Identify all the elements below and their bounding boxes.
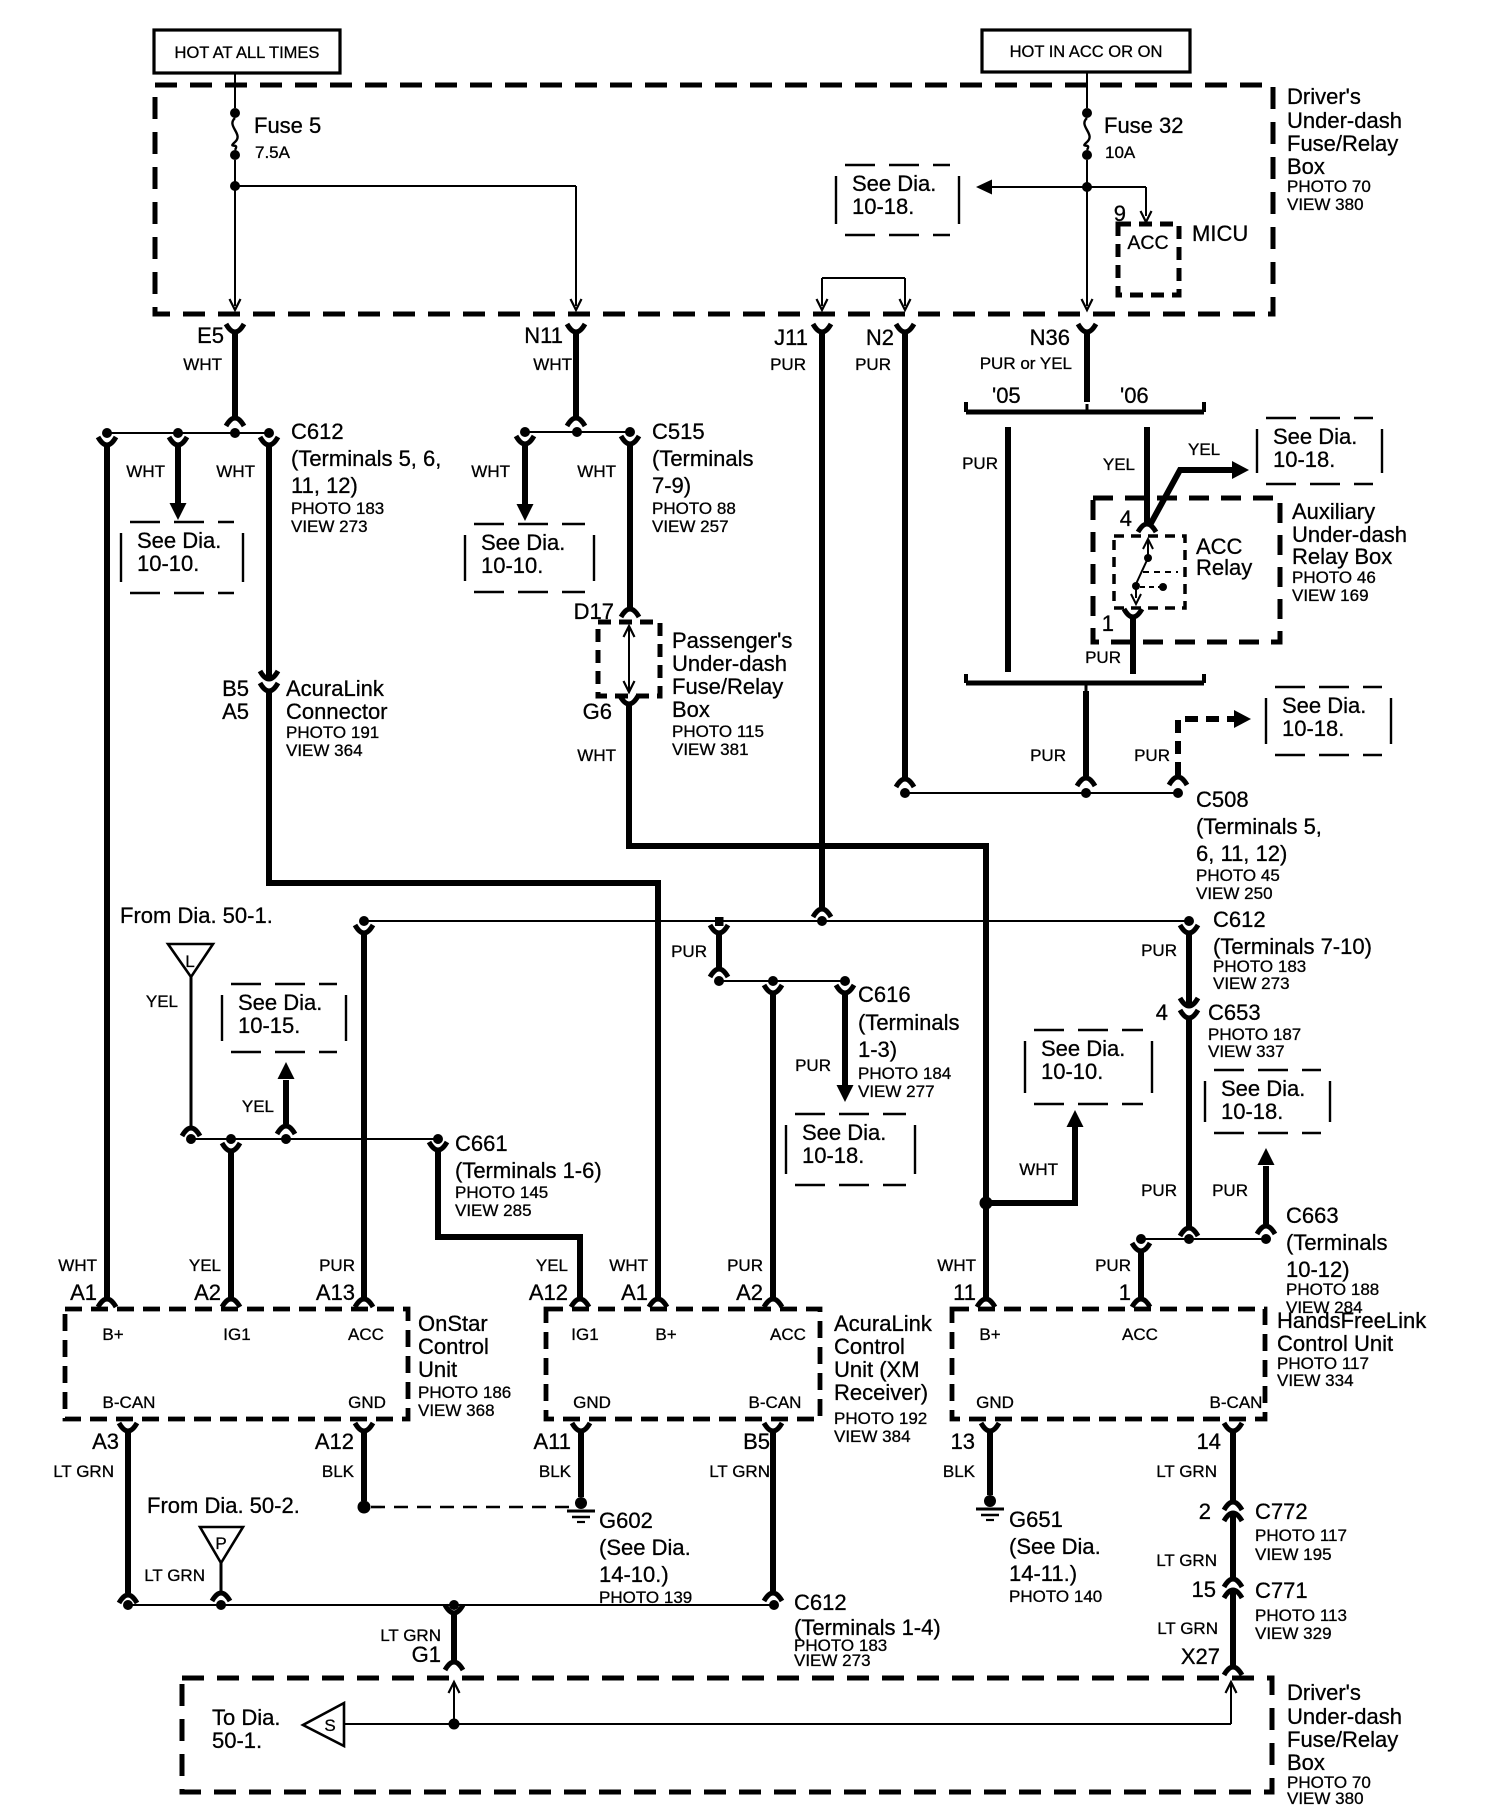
svg-text:PUR: PUR — [671, 942, 707, 961]
svg-text:10-18.: 10-18. — [1282, 716, 1344, 741]
svg-text:50-1.: 50-1. — [212, 1728, 262, 1753]
svg-text:PUR: PUR — [962, 454, 998, 473]
svg-text:10-18.: 10-18. — [1221, 1099, 1283, 1124]
svg-text:To Dia.: To Dia. — [212, 1705, 280, 1730]
svg-text:WHT: WHT — [58, 1256, 97, 1275]
svg-text:PHOTO 184: PHOTO 184 — [858, 1064, 951, 1083]
svg-text:LT GRN: LT GRN — [1156, 1462, 1217, 1481]
svg-text:PHOTO 188: PHOTO 188 — [1286, 1280, 1379, 1299]
svg-text:A12: A12 — [315, 1429, 354, 1454]
svg-text:(Terminals: (Terminals — [1286, 1230, 1387, 1255]
svg-text:VIEW 384: VIEW 384 — [834, 1427, 911, 1446]
svg-text:PUR: PUR — [855, 355, 891, 374]
svg-text:B+: B+ — [102, 1325, 123, 1344]
svg-text:PHOTO 113: PHOTO 113 — [1255, 1606, 1347, 1625]
svg-text:Passenger's: Passenger's — [672, 628, 792, 653]
svg-text:Fuse 32: Fuse 32 — [1104, 113, 1184, 138]
svg-text:PUR: PUR — [770, 355, 806, 374]
svg-text:WHT: WHT — [577, 746, 616, 765]
svg-text:PUR: PUR — [795, 1056, 831, 1075]
svg-text:A11: A11 — [533, 1429, 571, 1454]
svg-text:13: 13 — [951, 1429, 975, 1454]
svg-text:VIEW 364: VIEW 364 — [286, 741, 363, 760]
svg-text:LT GRN: LT GRN — [144, 1566, 205, 1585]
svg-text:VIEW 169: VIEW 169 — [1292, 586, 1369, 605]
svg-text:PUR: PUR — [727, 1256, 763, 1275]
svg-text:VIEW 273: VIEW 273 — [794, 1651, 871, 1670]
svg-text:C772: C772 — [1255, 1499, 1308, 1524]
svg-text:VIEW 273: VIEW 273 — [291, 517, 368, 536]
svg-text:7.5A: 7.5A — [255, 143, 291, 162]
svg-text:14-10.): 14-10.) — [599, 1562, 669, 1587]
svg-text:A5: A5 — [222, 699, 249, 724]
svg-text:C663: C663 — [1286, 1203, 1339, 1228]
svg-text:(See Dia.: (See Dia. — [1009, 1534, 1101, 1559]
svg-text:L: L — [185, 952, 194, 971]
svg-text:WHT: WHT — [183, 355, 222, 374]
svg-text:B-CAN: B-CAN — [103, 1393, 156, 1412]
svg-text:2: 2 — [1199, 1499, 1211, 1524]
svg-text:WHT: WHT — [577, 462, 616, 481]
svg-text:PUR: PUR — [1141, 1181, 1177, 1200]
svg-text:PHOTO 183: PHOTO 183 — [291, 499, 384, 518]
svg-text:A12: A12 — [529, 1280, 568, 1305]
svg-text:From Dia. 50-1.: From Dia. 50-1. — [120, 903, 273, 928]
svg-text:VIEW 273: VIEW 273 — [1213, 974, 1290, 993]
svg-text:See Dia.: See Dia. — [1273, 424, 1357, 449]
svg-text:A3: A3 — [92, 1429, 119, 1454]
svg-text:10-18.: 10-18. — [1273, 447, 1335, 472]
svg-text:B-CAN: B-CAN — [1210, 1393, 1263, 1412]
svg-text:GND: GND — [976, 1393, 1014, 1412]
svg-text:Fuse/Relay: Fuse/Relay — [1287, 1727, 1398, 1752]
svg-text:A1: A1 — [621, 1280, 648, 1305]
svg-text:WHT: WHT — [216, 462, 255, 481]
svg-text:Control Unit: Control Unit — [1277, 1331, 1393, 1356]
svg-text:PUR: PUR — [319, 1256, 355, 1275]
svg-text:PHOTO 70: PHOTO 70 — [1287, 177, 1371, 196]
svg-text:PHOTO 192: PHOTO 192 — [834, 1409, 927, 1428]
svg-text:11, 12): 11, 12) — [291, 473, 358, 498]
svg-text:Auxiliary: Auxiliary — [1292, 499, 1375, 524]
svg-text:LT GRN: LT GRN — [53, 1462, 114, 1481]
svg-text:HandsFreeLink: HandsFreeLink — [1277, 1308, 1427, 1333]
svg-text:BLK: BLK — [322, 1462, 355, 1481]
svg-text:10-10.: 10-10. — [1041, 1059, 1103, 1084]
svg-text:VIEW 285: VIEW 285 — [455, 1201, 532, 1220]
svg-text:WHT: WHT — [1019, 1160, 1058, 1179]
svg-text:C612: C612 — [1213, 907, 1266, 932]
svg-text:Fuse 5: Fuse 5 — [254, 113, 321, 138]
svg-text:G1: G1 — [412, 1642, 441, 1667]
svg-text:See Dia.: See Dia. — [852, 171, 936, 196]
svg-text:See Dia.: See Dia. — [481, 530, 565, 555]
svg-text:OnStar: OnStar — [418, 1311, 488, 1336]
svg-text:Box: Box — [672, 697, 710, 722]
svg-text:Receiver): Receiver) — [834, 1380, 928, 1405]
svg-text:HOT AT ALL TIMES: HOT AT ALL TIMES — [175, 44, 320, 62]
svg-text:(Terminals 7-10): (Terminals 7-10) — [1213, 934, 1372, 959]
svg-text:N11: N11 — [524, 323, 563, 348]
svg-text:WHT: WHT — [533, 355, 572, 374]
svg-text:G6: G6 — [583, 699, 612, 724]
svg-text:See Dia.: See Dia. — [1282, 693, 1366, 718]
svg-text:Driver's: Driver's — [1287, 84, 1361, 109]
svg-text:VIEW 277: VIEW 277 — [858, 1082, 935, 1101]
svg-text:Driver's: Driver's — [1287, 1680, 1361, 1705]
svg-text:GND: GND — [573, 1393, 611, 1412]
svg-text:B5: B5 — [743, 1429, 770, 1454]
svg-text:PUR or YEL: PUR or YEL — [980, 354, 1072, 373]
svg-text:Relay: Relay — [1196, 555, 1252, 580]
svg-text:A13: A13 — [316, 1280, 355, 1305]
svg-text:From Dia. 50-2.: From Dia. 50-2. — [147, 1493, 300, 1518]
svg-text:(Terminals: (Terminals — [652, 446, 753, 471]
svg-text:LT GRN: LT GRN — [1157, 1619, 1218, 1638]
svg-text:PHOTO 45: PHOTO 45 — [1196, 866, 1280, 885]
svg-text:P: P — [215, 1534, 226, 1553]
svg-text:YEL: YEL — [242, 1097, 274, 1116]
svg-text:AcuraLink: AcuraLink — [834, 1311, 933, 1336]
svg-text:Box: Box — [1287, 1750, 1325, 1775]
svg-text:N2: N2 — [866, 325, 894, 350]
svg-text:VIEW 380: VIEW 380 — [1287, 1789, 1364, 1808]
svg-text:'05: '05 — [992, 383, 1021, 408]
svg-text:VIEW 380: VIEW 380 — [1287, 195, 1364, 214]
svg-text:Under-dash: Under-dash — [672, 651, 787, 676]
svg-text:PHOTO 140: PHOTO 140 — [1009, 1587, 1102, 1606]
svg-text:Under-dash: Under-dash — [1287, 1704, 1402, 1729]
svg-text:BLK: BLK — [943, 1462, 976, 1481]
svg-text:C616: C616 — [858, 982, 911, 1007]
svg-text:WHT: WHT — [609, 1256, 648, 1275]
svg-text:Unit: Unit — [418, 1357, 457, 1382]
svg-text:G651: G651 — [1009, 1507, 1063, 1532]
svg-text:Connector: Connector — [286, 699, 388, 724]
svg-text:IG1: IG1 — [223, 1325, 250, 1344]
svg-text:ACC: ACC — [348, 1325, 384, 1344]
svg-text:Relay Box: Relay Box — [1292, 544, 1392, 569]
svg-text:B5: B5 — [222, 676, 249, 701]
svg-text:ACC: ACC — [1127, 232, 1168, 254]
svg-text:B+: B+ — [655, 1325, 676, 1344]
svg-text:G602: G602 — [599, 1508, 653, 1533]
svg-text:1: 1 — [1119, 1280, 1131, 1305]
svg-text:BLK: BLK — [539, 1462, 572, 1481]
svg-text:VIEW 337: VIEW 337 — [1208, 1042, 1285, 1061]
svg-text:(See Dia.: (See Dia. — [599, 1535, 691, 1560]
svg-text:See Dia.: See Dia. — [802, 1120, 886, 1145]
svg-text:4: 4 — [1156, 1000, 1168, 1025]
svg-text:VIEW 368: VIEW 368 — [418, 1401, 495, 1420]
svg-text:GND: GND — [348, 1393, 386, 1412]
svg-text:PHOTO 117: PHOTO 117 — [1255, 1526, 1347, 1545]
svg-text:10-15.: 10-15. — [238, 1013, 300, 1038]
svg-text:VIEW 195: VIEW 195 — [1255, 1545, 1332, 1564]
svg-text:MICU: MICU — [1192, 221, 1248, 246]
svg-text:PUR: PUR — [1134, 746, 1170, 765]
svg-text:PHOTO 46: PHOTO 46 — [1292, 568, 1376, 587]
svg-text:11: 11 — [953, 1280, 976, 1305]
svg-text:6, 11, 12): 6, 11, 12) — [1196, 841, 1287, 866]
svg-text:X27: X27 — [1181, 1644, 1220, 1669]
svg-text:N36: N36 — [1030, 325, 1070, 350]
svg-text:PHOTO 115: PHOTO 115 — [672, 722, 764, 741]
svg-text:VIEW 250: VIEW 250 — [1196, 884, 1273, 903]
svg-text:PUR: PUR — [1212, 1181, 1248, 1200]
svg-text:See Dia.: See Dia. — [1221, 1076, 1305, 1101]
svg-text:10A: 10A — [1105, 143, 1136, 162]
svg-text:1: 1 — [1102, 611, 1114, 636]
svg-text:YEL: YEL — [1103, 455, 1135, 474]
svg-text:PUR: PUR — [1141, 941, 1177, 960]
svg-text:E5: E5 — [197, 323, 224, 348]
svg-text:10-10.: 10-10. — [137, 551, 199, 576]
svg-text:15: 15 — [1192, 1577, 1216, 1602]
svg-text:PUR: PUR — [1095, 1256, 1131, 1275]
svg-text:ACC: ACC — [1122, 1325, 1158, 1344]
svg-text:VIEW 257: VIEW 257 — [652, 517, 729, 536]
svg-text:A1: A1 — [70, 1280, 97, 1305]
svg-text:Fuse/Relay: Fuse/Relay — [672, 674, 783, 699]
svg-text:10-18.: 10-18. — [852, 194, 914, 219]
svg-text:C508: C508 — [1196, 787, 1249, 812]
svg-text:VIEW 334: VIEW 334 — [1277, 1371, 1354, 1390]
svg-text:Under-dash: Under-dash — [1287, 108, 1402, 133]
svg-text:Box: Box — [1287, 154, 1325, 179]
svg-text:4: 4 — [1120, 506, 1132, 531]
svg-text:See Dia.: See Dia. — [238, 990, 322, 1015]
svg-text:YEL: YEL — [1188, 440, 1220, 459]
svg-text:PHOTO 191: PHOTO 191 — [286, 723, 379, 742]
svg-text:14-11.): 14-11.) — [1009, 1561, 1077, 1586]
svg-text:J11: J11 — [774, 325, 808, 350]
svg-text:(Terminals 5,: (Terminals 5, — [1196, 814, 1322, 839]
svg-text:YEL: YEL — [536, 1256, 568, 1275]
svg-text:C771: C771 — [1255, 1578, 1308, 1603]
svg-text:YEL: YEL — [189, 1256, 221, 1275]
svg-text:VIEW 329: VIEW 329 — [1255, 1624, 1332, 1643]
svg-text:YEL: YEL — [146, 992, 178, 1011]
svg-text:Fuse/Relay: Fuse/Relay — [1287, 131, 1398, 156]
svg-text:AcuraLink: AcuraLink — [286, 676, 385, 701]
svg-text:(Terminals 5, 6,: (Terminals 5, 6, — [291, 446, 441, 471]
svg-text:C515: C515 — [652, 419, 705, 444]
svg-text:Unit (XM: Unit (XM — [834, 1357, 920, 1382]
svg-text:C612: C612 — [794, 1590, 847, 1615]
svg-text:B-CAN: B-CAN — [749, 1393, 802, 1412]
svg-text:PHOTO 88: PHOTO 88 — [652, 499, 736, 518]
svg-text:10-10.: 10-10. — [481, 553, 543, 578]
svg-text:IG1: IG1 — [571, 1325, 598, 1344]
svg-text:See Dia.: See Dia. — [1041, 1036, 1125, 1061]
svg-text:C612: C612 — [291, 419, 344, 444]
svg-text:WHT: WHT — [937, 1256, 976, 1275]
svg-text:PUR: PUR — [1030, 746, 1066, 765]
svg-text:HOT IN ACC OR ON: HOT IN ACC OR ON — [1010, 43, 1163, 61]
svg-text:A2: A2 — [736, 1280, 763, 1305]
svg-text:1-3): 1-3) — [858, 1037, 897, 1062]
svg-text:'06: '06 — [1120, 383, 1149, 408]
svg-text:7-9): 7-9) — [652, 473, 691, 498]
svg-text:A2: A2 — [194, 1280, 221, 1305]
svg-text:WHT: WHT — [471, 462, 510, 481]
svg-text:Control: Control — [834, 1334, 905, 1359]
svg-text:(Terminals 1-6): (Terminals 1-6) — [455, 1158, 602, 1183]
svg-text:LT GRN: LT GRN — [1156, 1551, 1217, 1570]
svg-text:Control: Control — [418, 1334, 489, 1359]
svg-text:VIEW 381: VIEW 381 — [672, 740, 749, 759]
svg-text:10-12): 10-12) — [1286, 1257, 1350, 1282]
svg-text:PHOTO 145: PHOTO 145 — [455, 1183, 548, 1202]
svg-text:S: S — [324, 1716, 335, 1735]
svg-text:WHT: WHT — [126, 462, 165, 481]
svg-text:PUR: PUR — [1085, 648, 1121, 667]
svg-text:See Dia.: See Dia. — [137, 528, 221, 553]
svg-text:C653: C653 — [1208, 1000, 1261, 1025]
svg-text:LT GRN: LT GRN — [709, 1462, 770, 1481]
svg-text:10-18.: 10-18. — [802, 1143, 864, 1168]
svg-text:ACC: ACC — [770, 1325, 806, 1344]
svg-text:PHOTO 186: PHOTO 186 — [418, 1383, 511, 1402]
svg-text:B+: B+ — [979, 1325, 1000, 1344]
svg-text:(Terminals: (Terminals — [858, 1010, 959, 1035]
svg-text:14: 14 — [1197, 1429, 1221, 1454]
svg-text:C661: C661 — [455, 1131, 508, 1156]
